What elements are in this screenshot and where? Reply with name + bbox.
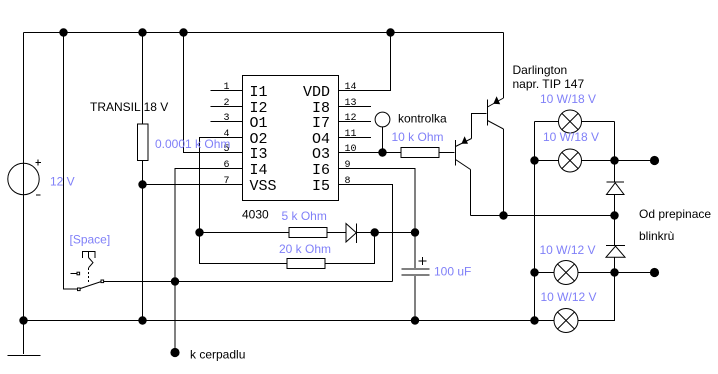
wire lamp3 left lead — [535, 272, 555, 274]
svg-text:VDD: VDD — [303, 84, 330, 101]
wire top supply rail — [24, 32, 504, 34]
svg-text:6: 6 — [223, 160, 229, 171]
svg-text:I7: I7 — [312, 115, 330, 132]
pin 3 stub — [211, 121, 243, 123]
wire VSS pin7 — [143, 184, 243, 186]
transistor Q2 emitter arrow — [493, 96, 500, 104]
svg-text:20 k Ohm: 20 k Ohm — [279, 242, 331, 256]
switch S1 key cap — [83, 252, 96, 259]
svg-text:TRANSIL 18 V: TRANSIL 18 V — [90, 100, 168, 114]
svg-text:13: 13 — [345, 98, 357, 109]
svg-text:I3: I3 — [250, 146, 268, 163]
wire darlington output — [471, 215, 615, 217]
wire lamp left rail — [534, 122, 536, 321]
resistor 10 k body — [401, 148, 439, 158]
diode D1 cathode bar — [607, 181, 625, 183]
voltage source minus mark — [36, 194, 41, 196]
wire Q2 collector down — [503, 129, 505, 216]
wire lamp2 left lead — [535, 160, 559, 162]
junction top rail VDD branch — [386, 28, 394, 36]
svg-text:8: 8 — [345, 176, 351, 187]
wire transil branch lower — [142, 161, 144, 321]
svg-text:12 V: 12 V — [50, 175, 75, 189]
op IC U1 4030 body — [243, 76, 339, 201]
pin 9 wire to node B — [339, 169, 416, 233]
svg-text:O3: O3 — [312, 146, 330, 163]
svg-text:1: 1 — [223, 82, 229, 93]
transil resistor body — [138, 124, 149, 161]
svg-text:VSS: VSS — [250, 178, 277, 195]
wire lamp1 right lead — [582, 121, 615, 123]
svg-text:10 W/18 V: 10 W/18 V — [540, 92, 596, 106]
switch S1 NC stub — [71, 273, 78, 275]
pin 12 stub — [339, 121, 372, 123]
svg-text:10: 10 — [345, 144, 357, 155]
svg-text:12: 12 — [345, 113, 357, 124]
svg-text:3: 3 — [223, 113, 229, 124]
lamp L1 10W/18V — [559, 110, 582, 133]
svg-text:k cerpadlu: k cerpadlu — [190, 348, 245, 362]
wire transil branch upper — [142, 33, 144, 125]
junction transil to VSS node — [138, 180, 146, 188]
wire bottom ground rail — [24, 320, 535, 322]
pin 11 stub — [339, 137, 372, 139]
wire left branch vertical (through source to ground) — [23, 33, 25, 355]
svg-text:10 W/12 V: 10 W/12 V — [541, 290, 597, 304]
junction top rail switch branch — [59, 28, 67, 36]
diode D2 triangle — [606, 246, 625, 257]
svg-text:14: 14 — [345, 82, 357, 93]
transistor Q2 collector diagonal — [488, 121, 504, 130]
terminal blinker upper — [650, 156, 659, 165]
junction pin6 switch line — [171, 277, 179, 285]
junction transil ground rail — [138, 316, 146, 324]
capacitor C1 top plate — [402, 268, 430, 270]
pin 13 stub — [339, 106, 372, 108]
svg-text:I5: I5 — [312, 178, 330, 195]
wire Q1 emitter to Q2 base — [472, 114, 487, 139]
transistor Q2 emitter diagonal — [488, 98, 504, 107]
ground — [8, 355, 41, 357]
svg-text:5 k Ohm: 5 k Ohm — [282, 209, 327, 223]
switch S1 right contact — [101, 280, 104, 283]
junction kontrolka pin10 — [378, 148, 386, 156]
svg-text:[Space]: [Space] — [70, 233, 111, 247]
pin 8 wire down to switch line — [339, 185, 393, 282]
wire capacitor to ground rail — [414, 276, 416, 321]
diode D3 triangle — [346, 224, 356, 243]
transistor Q1 emitter arrow — [461, 136, 468, 144]
diode D3 cathode bar — [355, 224, 357, 244]
pin 2 stub — [211, 106, 243, 108]
wire node A to 5k — [200, 232, 290, 234]
transistor Q1 emitter diagonal — [456, 139, 472, 147]
svg-text:0.0001 k Ohm: 0.0001 k Ohm — [155, 137, 230, 151]
wire diode to junction — [356, 232, 415, 234]
svg-text:9: 9 — [345, 160, 351, 171]
wire 5k to diode — [327, 232, 346, 234]
pin 1 stub — [211, 90, 243, 92]
pin 10 wire — [339, 152, 402, 154]
junction 20k return — [371, 228, 379, 236]
lamp kontrolka — [375, 112, 390, 127]
diode D1 triangle — [607, 183, 625, 195]
svg-text:Darlington: Darlington — [513, 63, 568, 77]
junction lamp4 ground rail — [530, 316, 538, 324]
svg-text:7: 7 — [223, 176, 229, 187]
voltage source plus mark — [36, 160, 42, 166]
wire node B to capacitor — [414, 233, 416, 269]
svg-text:100 uF: 100 uF — [434, 265, 471, 279]
terminal k cerpadlu — [170, 348, 179, 357]
lamp L2 10W/18V — [559, 149, 582, 172]
wire lamp1 left lead — [535, 121, 559, 123]
wire pin14 VDD branch — [339, 33, 391, 91]
terminal blinker lower — [650, 268, 659, 277]
svg-text:Od prepinace: Od prepinace — [639, 207, 711, 221]
wire lamp3 right to terminal — [578, 272, 655, 274]
switch S1 bottom contact — [78, 288, 81, 291]
wire 20k branch — [200, 233, 288, 264]
wire pin5 branch from rail — [184, 33, 243, 153]
wire Q1 collector down — [470, 170, 472, 216]
wire lamp2 right to terminal — [582, 160, 655, 162]
svg-text:napr. TIP 147: napr. TIP 147 — [513, 77, 585, 91]
svg-text:11: 11 — [345, 129, 357, 140]
svg-text:2: 2 — [223, 98, 229, 109]
wire Q2 emitter to top rail — [503, 33, 505, 99]
junction lamp3 left — [530, 268, 538, 276]
svg-text:10 k Ohm: 10 k Ohm — [392, 130, 444, 144]
transistor Q1 collector diagonal — [456, 160, 471, 170]
wire lamp4 left lead — [535, 320, 555, 322]
wire diode chain lower — [578, 257, 615, 320]
wire switch output — [104, 281, 393, 283]
svg-text:kontrolka: kontrolka — [398, 112, 447, 126]
lamp L3 10W/12V — [554, 261, 578, 285]
junction lamp2 diode chain — [610, 156, 618, 164]
transistor Q2 base bar — [487, 100, 489, 126]
wire diode chain upper — [614, 122, 616, 183]
capacitor C1 plus mark — [419, 257, 427, 265]
wire switch branch vertical — [64, 33, 78, 290]
svg-text:I4: I4 — [250, 162, 268, 179]
capacitor C1 bottom plate — [402, 274, 430, 276]
svg-text:4030: 4030 — [242, 208, 269, 222]
switch S1 NC contact — [77, 272, 80, 275]
junction top rail pin5 branch — [179, 28, 187, 36]
switch S1 actuator dashed — [88, 268, 90, 284]
node A junction — [195, 228, 203, 236]
junction lamp3 diode chain — [610, 268, 618, 276]
diode D2 cathode bar — [606, 245, 625, 247]
switch S1 lever — [80, 282, 101, 289]
junction output diode chain — [610, 211, 618, 219]
wire diode chain middle — [614, 195, 616, 246]
wire kontrolka stem — [382, 127, 384, 153]
svg-text:O1: O1 — [250, 115, 268, 132]
junction ground rail left — [19, 316, 27, 324]
wire 10k to Q1 base — [439, 152, 455, 154]
junction top rail transil — [138, 28, 146, 36]
resistor 20 k body — [287, 259, 325, 269]
node B junction — [411, 228, 419, 236]
junction lamp2 left — [530, 156, 538, 164]
svg-text:10 W/18 V: 10 W/18 V — [543, 130, 599, 144]
resistor 5 k body — [289, 228, 327, 238]
pin 4 wire to node A — [200, 138, 243, 233]
voltage source V1 circle — [8, 163, 39, 194]
switch S1 spring zigzag — [89, 258, 94, 268]
junction capacitor ground rail — [411, 316, 419, 324]
svg-text:I6: I6 — [312, 162, 330, 179]
wire 20k to return vertical — [325, 233, 375, 264]
lamp L4 10W/12V — [554, 309, 578, 333]
svg-text:I1: I1 — [250, 84, 268, 101]
junction Q2 collector output — [499, 211, 507, 219]
pin 6 wire down to switch line and k cerpadlu — [175, 169, 243, 353]
svg-text:blinkrù: blinkrù — [639, 229, 674, 243]
svg-text:10 W/12 V: 10 W/12 V — [540, 243, 596, 257]
transistor Q1 base bar — [455, 140, 457, 166]
